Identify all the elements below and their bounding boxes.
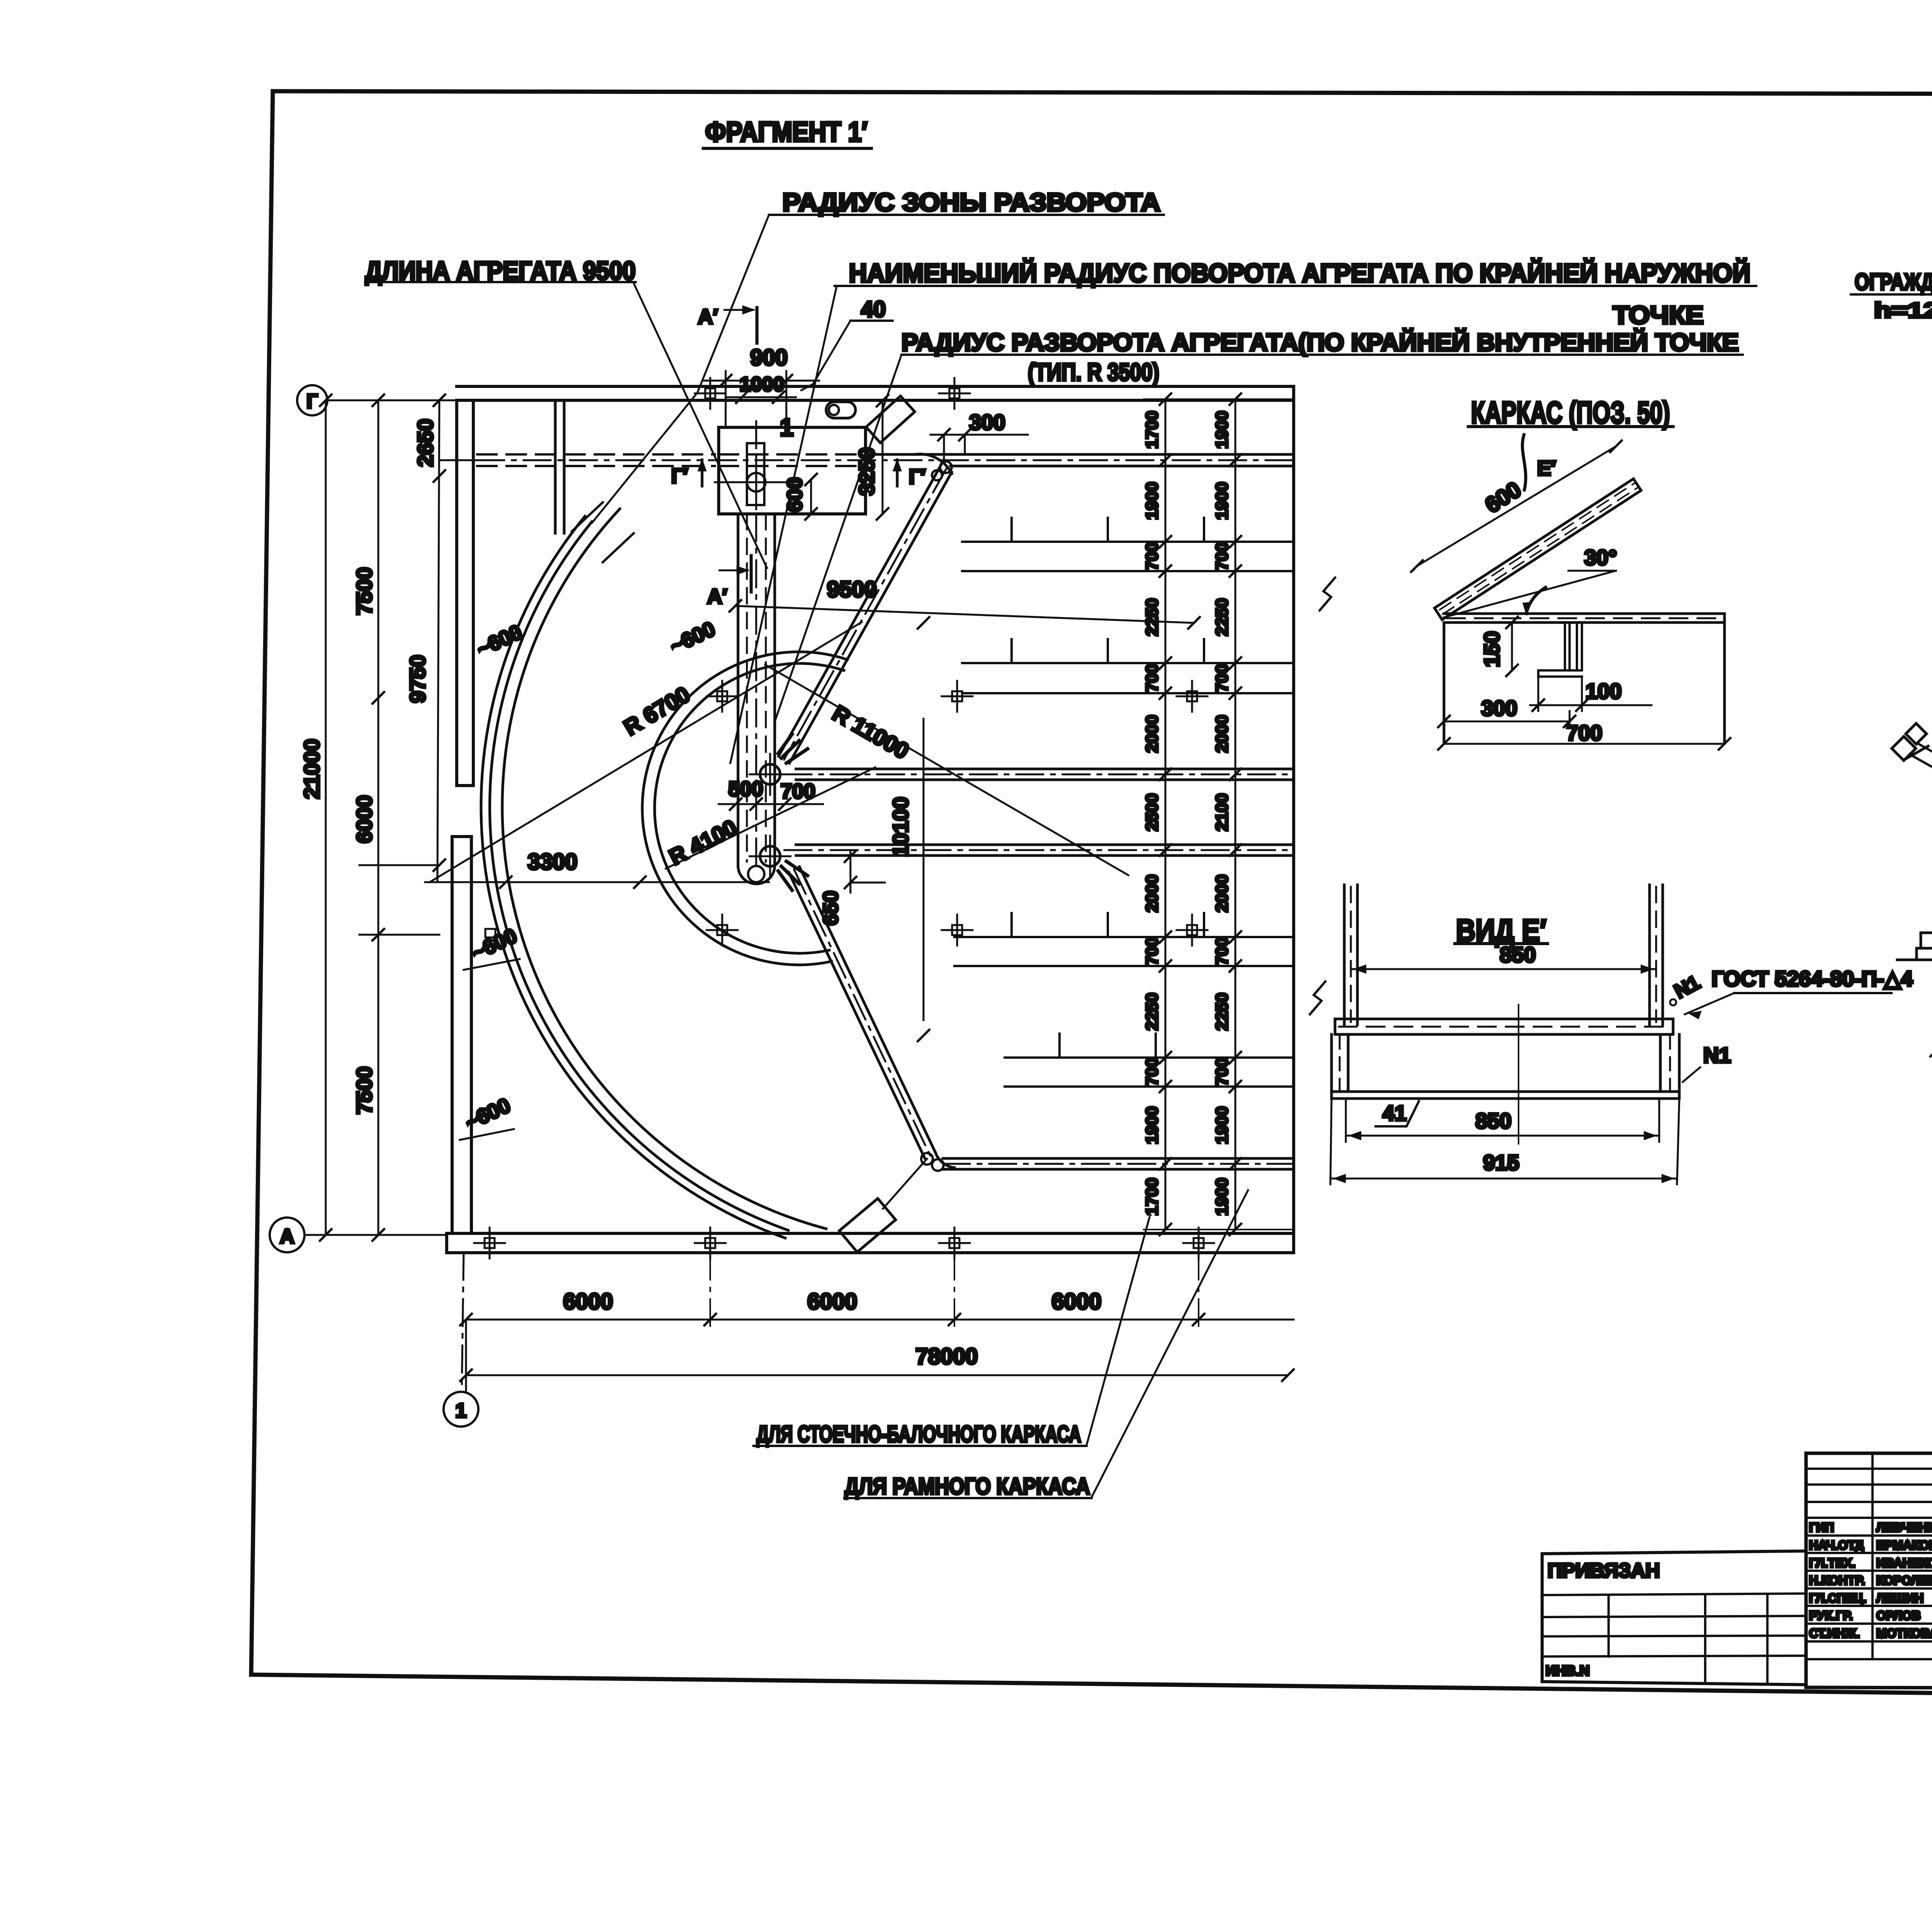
- svg-text:300: 300: [969, 410, 1005, 434]
- svg-text:КАРКАС (ПОЗ. 50): КАРКАС (ПОЗ. 50): [1471, 395, 1670, 430]
- svg-text:2250: 2250: [1213, 598, 1231, 636]
- svg-text:700: 700: [781, 780, 815, 803]
- svg-text:9750: 9750: [405, 655, 430, 703]
- svg-text:1700: 1700: [1143, 411, 1162, 449]
- building top wall: [457, 385, 1294, 388]
- svg-text:30°: 30°: [1584, 545, 1617, 570]
- leader wire: [775, 355, 901, 722]
- svg-text:1900: 1900: [1143, 1106, 1162, 1144]
- axis circle A: [270, 1218, 304, 1252]
- svg-text:700: 700: [1566, 721, 1602, 745]
- right dim chain column 1: [1165, 399, 1167, 1230]
- TITLE BLOCK: [1542, 1453, 1932, 1724]
- svg-text:2250: 2250: [1213, 993, 1231, 1031]
- leg: [1538, 622, 1582, 677]
- pivot circle in box: [747, 473, 765, 492]
- svg-text:3300: 3300: [527, 849, 577, 874]
- svg-text:1: 1: [780, 413, 794, 441]
- trough row pair 1: [962, 518, 1294, 571]
- svg-text:6000: 6000: [563, 1289, 613, 1314]
- svg-text:РАДИУС РАЗВОРОТА АГРЕГАТА(ПО: РАДИУС РАЗВОРОТА АГРЕГАТА(ПО КРАЙНЕЙ ВНУ…: [901, 328, 1739, 356]
- svg-text:700: 700: [1143, 542, 1162, 570]
- signature table rows: [1806, 1469, 1932, 1659]
- svg-text:100: 100: [1585, 679, 1621, 703]
- svg-text:2000: 2000: [1213, 715, 1231, 753]
- svg-text:2250: 2250: [1143, 993, 1162, 1031]
- dim 300: [1444, 721, 1570, 723]
- svg-text:6000: 6000: [807, 1289, 857, 1314]
- svg-text:700: 700: [1213, 664, 1231, 692]
- trough row pair 4: [1005, 1034, 1294, 1087]
- arc end slash ticks: [572, 502, 603, 531]
- corner wheel top: [940, 461, 952, 473]
- svg-text:(ТИП. R 3500): (ТИП. R 3500): [1028, 358, 1159, 386]
- svg-text:78000: 78000: [915, 1344, 978, 1369]
- svg-text:РАДИУС ЗОНЫ РАЗВОРОТА: РАДИУС ЗОНЫ РАЗВОРОТА: [782, 188, 1160, 216]
- left attach box: [1542, 1551, 1806, 1685]
- SECTION A'-A': [1892, 692, 1932, 1314]
- top rail band: [1335, 1018, 1673, 1020]
- svg-text:7500: 7500: [352, 1066, 376, 1115]
- chain boundary lines right: [1144, 399, 1294, 1230]
- left post: [1343, 885, 1346, 1025]
- trough row pair 2: [962, 639, 1294, 693]
- turning loop outer arc: [642, 652, 847, 965]
- svg-text:Е′: Е′: [1537, 457, 1556, 480]
- left dim chain 2650 9750: [437, 400, 439, 882]
- svg-text:850: 850: [1475, 1109, 1511, 1133]
- flap plate rotated: [1434, 479, 1641, 620]
- svg-text:1900: 1900: [1213, 482, 1231, 520]
- view mark E': [1522, 435, 1526, 490]
- svg-text:ГЛ.СПЕЦ.: ГЛ.СПЕЦ.: [1809, 1591, 1866, 1605]
- svg-text:2250: 2250: [1143, 598, 1162, 636]
- upper diagonal conveyor: [779, 454, 952, 763]
- svg-text:ИВАНЕКО: ИВАНЕКО: [1876, 1556, 1932, 1570]
- svg-text:НАИМЕНЬШИЙ РАДИУС ПОВОРОТА: НАИМЕНЬШИЙ РАДИУС ПОВОРОТА АГРЕГАТА ПО К…: [849, 258, 1750, 288]
- building right wall: [1292, 386, 1295, 1253]
- transporter row2: [784, 769, 1294, 780]
- svg-text:N1: N1: [1703, 1043, 1731, 1067]
- trough box: [1330, 1034, 1333, 1099]
- channel conveyor: [738, 421, 775, 884]
- oval poz40: [826, 402, 855, 418]
- axis circle G: [297, 385, 327, 415]
- left wall lower strip: [452, 837, 471, 1233]
- svg-text:1900: 1900: [1213, 1178, 1231, 1216]
- svg-text:ПРИВЯЗАН: ПРИВЯЗАН: [1548, 1560, 1660, 1582]
- leader wire to outer arc: [592, 215, 769, 522]
- svg-text:Г: Г: [306, 390, 318, 413]
- svg-text:6000: 6000: [1051, 1289, 1101, 1314]
- svg-text:ЕРМАКОВ: ЕРМАКОВ: [1876, 1538, 1932, 1552]
- bottom dim 6000s: [466, 1319, 1294, 1321]
- pivot 2: [760, 846, 780, 866]
- svg-text:21000: 21000: [299, 739, 324, 799]
- svg-text:Н.КОНТР.: Н.КОНТР.: [1809, 1573, 1865, 1587]
- tilted deflector top: [866, 396, 915, 443]
- lower diagonal conveyor: [789, 867, 954, 1168]
- svg-text:6000: 6000: [352, 795, 376, 844]
- svg-text:КОРОЛЕВА: КОРОЛЕВА: [1876, 1573, 1932, 1587]
- tilted deflector bottom: [839, 1199, 896, 1252]
- transporter row1: [477, 454, 1294, 466]
- dim 915: [1330, 1178, 1677, 1180]
- PLAN view Fragment 1': [270, 117, 1756, 1499]
- VIDE placeholder: [0, 0, 2, 2]
- main outline: [1806, 1453, 1932, 1689]
- svg-text:2650: 2650: [413, 419, 437, 467]
- svg-text:Г′: Г′: [909, 465, 926, 488]
- svg-text:А: А: [280, 1225, 294, 1248]
- svg-text:41: 41: [1383, 1101, 1406, 1125]
- drive head: [1892, 736, 1916, 760]
- leader wire: [634, 283, 767, 568]
- svg-text:1900: 1900: [1143, 482, 1162, 520]
- left dim line 21000: [325, 400, 327, 1235]
- svg-text:ИНВ.N: ИНВ.N: [1546, 1663, 1590, 1679]
- turning loop inner arc: [655, 663, 844, 953]
- bottom dim 78000: [466, 1374, 1288, 1376]
- pivot 1: [760, 764, 780, 784]
- radius leader R6700: [430, 622, 862, 882]
- centerline: [1518, 1005, 1519, 1144]
- svg-text:2100: 2100: [1213, 793, 1231, 831]
- svg-text:650: 650: [819, 891, 842, 925]
- svg-text:А′: А′: [698, 305, 718, 328]
- svg-text:ДЛЯ РАМНОГО КАРКАСА: ДЛЯ РАМНОГО КАРКАСА: [845, 1473, 1090, 1499]
- svg-text:10100: 10100: [888, 797, 913, 857]
- svg-text:2000: 2000: [1143, 715, 1162, 753]
- svg-text:СТ.ИНЖ.: СТ.ИНЖ.: [1809, 1626, 1860, 1640]
- axis circle 1: [444, 1392, 478, 1427]
- table top band: [1444, 612, 1725, 615]
- svg-text:1: 1: [456, 1400, 467, 1422]
- box below: [1443, 622, 1446, 742]
- break zigzag right 2: [1310, 981, 1325, 1014]
- svg-text:700: 700: [1213, 542, 1231, 570]
- trough row pair 3: [954, 913, 1294, 966]
- VID E detail: [1330, 885, 1913, 1184]
- svg-text:ЛЕВЧЕНКОВА: ЛЕВЧЕНКОВА: [1876, 1520, 1932, 1534]
- svg-text:850: 850: [1500, 942, 1536, 967]
- right post: [1648, 885, 1651, 1025]
- svg-text:700: 700: [1213, 1058, 1231, 1086]
- svg-text:ОРЛОВ: ОРЛОВ: [1876, 1609, 1921, 1622]
- svg-text:1700: 1700: [1143, 1178, 1162, 1216]
- svg-text:3250: 3250: [854, 447, 879, 496]
- svg-text:9500: 9500: [827, 577, 877, 602]
- svg-text:РУК.ГР.: РУК.ГР.: [1809, 1609, 1853, 1622]
- svg-text:НАЧ.ОТД: НАЧ.ОТД: [1809, 1538, 1864, 1552]
- svg-text:Г′: Г′: [671, 464, 688, 488]
- svg-text:ФРАГМЕНТ 1′: ФРАГМЕНТ 1′: [705, 117, 867, 148]
- dim 600 along flap: [1417, 446, 1616, 566]
- signature table names: [1809, 1520, 1932, 1640]
- dim 850 bottom: [1346, 1135, 1659, 1137]
- svg-text:ДЛЯ СТОЕЧНО-БАЛОЧНОГО КАРКАСА: ДЛЯ СТОЕЧНО-БАЛОЧНОГО КАРКАСА: [757, 1421, 1081, 1447]
- svg-text:h=1200: h=1200: [1874, 298, 1932, 322]
- weld mark N1: [1670, 999, 1676, 1005]
- KARKAS detail poz.50: [1411, 395, 1730, 750]
- svg-text:ГЛ.ТЕХ.: ГЛ.ТЕХ.: [1809, 1556, 1855, 1570]
- svg-text:700: 700: [1143, 937, 1162, 965]
- svg-text:2500: 2500: [1143, 793, 1162, 831]
- svg-text:ГОСТ 5264-80-П-△4: ГОСТ 5264-80-П-△4: [1712, 966, 1913, 991]
- svg-text:700: 700: [1143, 664, 1162, 692]
- left wall upper strip: [457, 400, 473, 786]
- signature table columns: [1872, 1453, 1932, 1659]
- svg-text:2000: 2000: [1213, 874, 1231, 912]
- svg-text:900: 900: [750, 345, 788, 370]
- dim 700: [1444, 743, 1725, 745]
- leader wire: [730, 287, 837, 763]
- svg-text:40: 40: [861, 297, 886, 322]
- svg-text:915: 915: [1483, 1150, 1519, 1175]
- svg-text:300: 300: [1481, 696, 1517, 720]
- break zigzag right 1: [1320, 578, 1335, 611]
- svg-text:500: 500: [728, 777, 763, 801]
- interior wall stub: [554, 400, 557, 533]
- radius leader R11000: [765, 665, 1128, 875]
- right dim chain column 2: [1235, 399, 1236, 1230]
- outer zone arc double R11000: [481, 516, 785, 1238]
- svg-text:ОГРАЖДЕНИЕ: ОГРАЖДЕНИЕ: [1855, 269, 1932, 295]
- chain tick slashes: [1160, 393, 1241, 1235]
- transporter row3: [784, 845, 1294, 855]
- svg-text:ГИП: ГИП: [1809, 1520, 1834, 1534]
- svg-text:700: 700: [1143, 1058, 1162, 1086]
- svg-text:А′: А′: [707, 585, 727, 608]
- building bottom wall: [447, 1232, 1294, 1235]
- dim 150: [1511, 622, 1513, 670]
- border frame: [251, 91, 1932, 1700]
- svg-text:1900: 1900: [1213, 411, 1231, 449]
- small squares on arc: [485, 929, 495, 937]
- left dim chain 7500 6000 7500: [378, 400, 379, 1235]
- chain labels column1: [1143, 411, 1231, 1216]
- svg-text:7500: 7500: [352, 567, 376, 616]
- inner zone arc: [502, 509, 826, 1229]
- svg-text:2000: 2000: [1143, 874, 1162, 912]
- transporter row4: [943, 1158, 1294, 1169]
- ground line left: [1897, 959, 1932, 961]
- column cross markers interior: [474, 378, 1214, 1259]
- svg-text:700: 700: [1213, 937, 1231, 965]
- svg-text:150: 150: [1480, 631, 1504, 667]
- svg-text:МОТКОВА: МОТКОВА: [1876, 1626, 1932, 1640]
- inclined conveyor dashed: [1910, 754, 1932, 1053]
- svg-text:600: 600: [783, 477, 806, 512]
- svg-text:1900: 1900: [1213, 1106, 1231, 1144]
- svg-text:ТОЧКЕ: ТОЧКЕ: [1613, 301, 1704, 329]
- svg-text:ЛЕШИН: ЛЕШИН: [1876, 1591, 1923, 1605]
- radius leader R4100: [666, 767, 875, 869]
- SECTION G'-G': [1851, 106, 1932, 695]
- machine box: [719, 427, 866, 514]
- corner wheels bottom: [921, 1153, 933, 1165]
- slash ticks left chains: [320, 395, 445, 1241]
- dim 100: [1530, 704, 1651, 706]
